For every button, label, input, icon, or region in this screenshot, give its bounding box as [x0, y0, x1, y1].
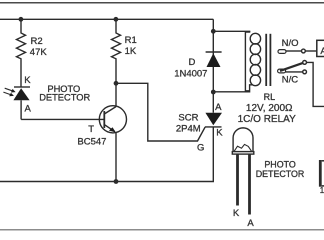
svg-text:BC547: BC547 [77, 136, 106, 147]
wire N/C lug to contact point [286, 71, 303, 73]
label PHOTO DETECTOR (right) [256, 160, 305, 180]
wire top rail (positive supply) [0, 18, 213, 20]
wire bottom rail [0, 127, 213, 182]
svg-text:SCR: SCR [178, 112, 198, 123]
svg-text:D: D [189, 57, 196, 68]
relay contact N/O terminal lug [278, 50, 286, 54]
svg-text:47K: 47K [30, 47, 48, 58]
svg-text:A: A [215, 102, 222, 113]
contact point N/O [302, 49, 306, 53]
terminal box 1 (clipped at right edge) [320, 160, 324, 187]
junction rail-R2 [19, 17, 24, 22]
LED-style photo detector package [232, 128, 254, 154]
wire emitter to bottom rail [115, 132, 117, 181]
svg-text:K: K [233, 208, 240, 219]
label PHOTO DETECTOR (left) [39, 84, 90, 103]
svg-text:1N4007: 1N4007 [174, 69, 207, 80]
svg-text:A: A [247, 218, 254, 229]
resistor R1 [112, 19, 121, 106]
photodiode PD (photo detector) [13, 87, 30, 119]
relay core bars [266, 34, 270, 86]
light arrows into photodiode [3, 88, 15, 96]
junction rail-R1 [114, 17, 119, 22]
svg-text:K: K [24, 75, 31, 86]
diode D 1N4007 [206, 52, 222, 67]
relay contact N/C terminal lug [278, 69, 286, 73]
junction diode-coil top [211, 29, 216, 34]
contact point N/C [303, 70, 307, 74]
relay RL coil [245, 32, 260, 91]
wire pole contact to right edge [307, 62, 324, 106]
svg-text:K: K [216, 128, 223, 139]
junction collector node / gate branch [114, 81, 119, 86]
svg-text:PHOTO: PHOTO [264, 160, 295, 170]
wire photodiode anode to transistor base [21, 118, 104, 120]
svg-text:A: A [320, 46, 324, 57]
resistor R2 [17, 19, 26, 87]
wire collector node to SCR gate [116, 83, 205, 141]
svg-text:12V, 200Ω: 12V, 200Ω [246, 103, 293, 114]
svg-text:R2: R2 [31, 36, 43, 47]
svg-text:N/O: N/O [282, 38, 299, 49]
top frame border [0, 2, 324, 4]
svg-text:1: 1 [320, 186, 324, 195]
svg-text:N/C: N/C [282, 74, 299, 85]
bottom frame border [0, 229, 324, 231]
contact point pole [303, 61, 307, 65]
lead A of photo detector package [248, 154, 251, 214]
svg-text:1K: 1K [125, 46, 137, 57]
svg-text:2P4M: 2P4M [176, 124, 201, 135]
wire N/O contact to terminal box A [305, 50, 317, 52]
wire diode branch vertical [212, 19, 214, 112]
svg-text:A: A [25, 103, 32, 114]
svg-text:T: T [88, 124, 94, 135]
relay armature arm [280, 63, 303, 71]
lead K of photo detector package [236, 154, 239, 205]
svg-text:DETECTOR: DETECTOR [39, 93, 90, 103]
transistor T BC547 [99, 106, 126, 133]
svg-text:G: G [197, 143, 204, 154]
junction emitter-rail [114, 179, 119, 184]
svg-text:RL: RL [264, 92, 276, 102]
junction diode-coil bottom [211, 90, 216, 95]
svg-text:R1: R1 [125, 35, 137, 46]
svg-text:1C/O RELAY: 1C/O RELAY [238, 114, 296, 125]
terminal box A (clipped at right edge) [317, 40, 324, 56]
wire relay coil bottom to diode branch [213, 85, 252, 92]
wire rail to relay coil top [213, 30, 250, 32]
wire N/O lug to contact point [286, 50, 301, 52]
svg-text:DETECTOR: DETECTOR [256, 169, 305, 179]
SCR 2P4M [205, 113, 222, 127]
